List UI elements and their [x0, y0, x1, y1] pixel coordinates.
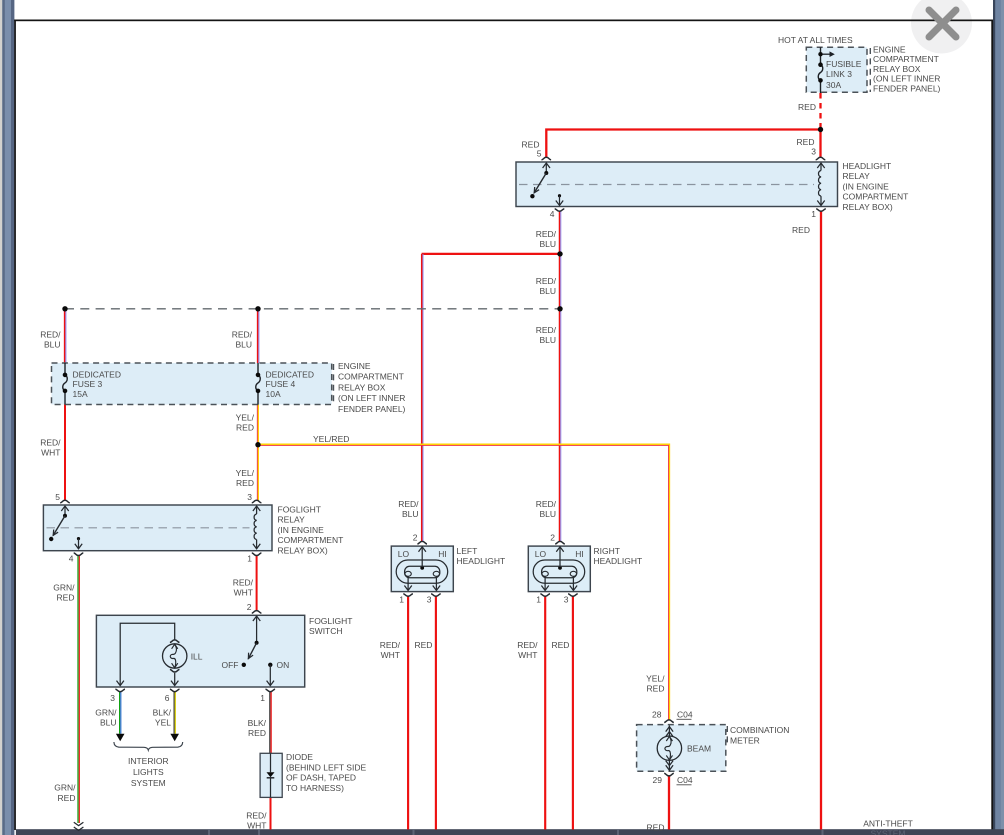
svg-text:HI: HI — [575, 549, 584, 559]
svg-text:RED: RED — [58, 793, 76, 803]
svg-text:RED/: RED/ — [233, 578, 254, 588]
svg-text:1: 1 — [399, 595, 404, 605]
svg-text:RED: RED — [248, 728, 266, 738]
svg-text:RED/: RED/ — [40, 330, 61, 340]
svg-text:3: 3 — [247, 492, 252, 502]
svg-text:GRN/: GRN/ — [53, 583, 75, 593]
svg-text:ILL: ILL — [191, 652, 203, 662]
svg-text:HEADLIGHT: HEADLIGHT — [594, 556, 643, 566]
svg-text:BEAM: BEAM — [687, 744, 711, 754]
svg-text:28: 28 — [652, 710, 662, 720]
svg-text:BLK/: BLK/ — [153, 708, 172, 718]
svg-text:RED/: RED/ — [536, 499, 557, 509]
svg-text:(IN ENGINE: (IN ENGINE — [843, 181, 890, 191]
svg-text:COMPARTMENT: COMPARTMENT — [873, 54, 939, 64]
svg-text:3: 3 — [110, 693, 115, 703]
svg-text:BLU: BLU — [539, 509, 556, 519]
svg-text:YEL/: YEL/ — [236, 468, 255, 478]
svg-text:DIODE: DIODE — [286, 752, 313, 762]
svg-text:30A: 30A — [826, 80, 841, 90]
svg-text:RED: RED — [415, 640, 433, 650]
svg-text:DEDICATED: DEDICATED — [73, 369, 122, 379]
svg-text:ANTI-THEFT: ANTI-THEFT — [863, 819, 913, 829]
svg-text:BLU: BLU — [100, 718, 117, 728]
svg-text:SYSTEM: SYSTEM — [871, 829, 906, 835]
svg-text:RED/: RED/ — [398, 499, 419, 509]
svg-text:RED: RED — [647, 823, 665, 833]
svg-text:LIGHTS: LIGHTS — [133, 767, 164, 777]
svg-text:LO: LO — [535, 549, 547, 559]
svg-text:COMPARTMENT: COMPARTMENT — [338, 372, 404, 382]
svg-text:YEL/RED: YEL/RED — [313, 434, 349, 444]
svg-text:ON: ON — [277, 660, 290, 670]
svg-text:WHT: WHT — [247, 820, 266, 830]
svg-text:BLU: BLU — [402, 509, 419, 519]
svg-text:(BEHIND LEFT SIDE: (BEHIND LEFT SIDE — [286, 762, 366, 772]
svg-text:RELAY BOX): RELAY BOX) — [843, 202, 893, 212]
svg-text:LEFT: LEFT — [457, 546, 478, 556]
svg-text:HEADLIGHT: HEADLIGHT — [457, 556, 506, 566]
svg-text:RED: RED — [797, 137, 815, 147]
svg-text:4: 4 — [69, 554, 74, 564]
svg-text:RIGHT: RIGHT — [594, 546, 620, 556]
svg-text:FUSE 3: FUSE 3 — [73, 379, 103, 389]
svg-text:RELAY BOX): RELAY BOX) — [278, 545, 328, 555]
svg-text:COMPARTMENT: COMPARTMENT — [843, 192, 909, 202]
svg-text:RED: RED — [236, 478, 254, 488]
svg-text:RED: RED — [798, 102, 816, 112]
svg-text:15A: 15A — [73, 389, 88, 399]
svg-text:10A: 10A — [266, 389, 281, 399]
svg-text:SYSTEM: SYSTEM — [131, 778, 166, 788]
svg-text:METER: METER — [730, 735, 760, 745]
svg-text:RELAY BOX: RELAY BOX — [873, 64, 921, 74]
svg-text:1: 1 — [536, 595, 541, 605]
svg-text:RED/: RED/ — [536, 276, 557, 286]
svg-text:RED: RED — [552, 640, 570, 650]
svg-text:LO: LO — [398, 549, 410, 559]
svg-text:COMPARTMENT: COMPARTMENT — [278, 535, 344, 545]
svg-text:RED/: RED/ — [536, 325, 557, 335]
svg-text:RED/: RED/ — [517, 640, 538, 650]
svg-text:(ON LEFT INNER: (ON LEFT INNER — [338, 393, 405, 403]
svg-text:(IN ENGINE: (IN ENGINE — [278, 525, 325, 535]
svg-text:OFF: OFF — [222, 660, 239, 670]
svg-text:BLU: BLU — [539, 335, 556, 345]
svg-text:C04: C04 — [677, 775, 693, 785]
svg-text:RED: RED — [57, 593, 75, 603]
svg-text:RED/: RED/ — [536, 229, 557, 239]
svg-text:3: 3 — [564, 595, 569, 605]
svg-text:YEL/: YEL/ — [236, 413, 255, 423]
svg-text:RED/: RED/ — [246, 810, 267, 820]
svg-text:RELAY: RELAY — [278, 515, 306, 525]
svg-text:C04: C04 — [677, 710, 693, 720]
svg-text:ENGINE: ENGINE — [873, 45, 906, 55]
svg-text:FENDER PANEL): FENDER PANEL) — [873, 83, 941, 93]
svg-text:2: 2 — [550, 533, 555, 543]
svg-text:INTERIOR: INTERIOR — [128, 756, 169, 766]
svg-text:2: 2 — [413, 533, 418, 543]
svg-text:BLU: BLU — [539, 286, 556, 296]
svg-text:SWITCH: SWITCH — [309, 626, 343, 636]
svg-text:2: 2 — [247, 602, 252, 612]
svg-text:WHT: WHT — [518, 650, 537, 660]
svg-text:5: 5 — [55, 492, 60, 502]
svg-text:RED/: RED/ — [380, 640, 401, 650]
svg-text:HOT AT ALL TIMES: HOT AT ALL TIMES — [778, 35, 853, 45]
svg-text:WHT: WHT — [234, 588, 253, 598]
svg-text:GRN/: GRN/ — [95, 708, 117, 718]
svg-text:OF DASH, TAPED: OF DASH, TAPED — [286, 773, 356, 783]
svg-text:RED/: RED/ — [40, 438, 61, 448]
svg-text:RED: RED — [647, 684, 665, 694]
svg-text:RELAY BOX: RELAY BOX — [338, 382, 386, 392]
svg-text:HEADLIGHT: HEADLIGHT — [843, 161, 892, 171]
svg-text:FOGLIGHT: FOGLIGHT — [278, 505, 321, 515]
svg-text:ENGINE: ENGINE — [338, 361, 371, 371]
svg-text:FUSE 4: FUSE 4 — [266, 379, 296, 389]
svg-text:RELAY: RELAY — [843, 171, 871, 181]
svg-text:3: 3 — [811, 147, 816, 157]
svg-text:WHT: WHT — [41, 448, 60, 458]
svg-text:3: 3 — [427, 595, 432, 605]
svg-text:(ON LEFT INNER: (ON LEFT INNER — [873, 74, 940, 84]
svg-text:YEL/: YEL/ — [646, 674, 665, 684]
svg-text:TO HARNESS): TO HARNESS) — [286, 783, 344, 793]
svg-text:DEDICATED: DEDICATED — [266, 369, 315, 379]
svg-text:1: 1 — [247, 554, 252, 564]
svg-text:5: 5 — [537, 149, 542, 159]
svg-text:6: 6 — [165, 693, 170, 703]
svg-text:4: 4 — [550, 209, 555, 219]
svg-text:WHT: WHT — [381, 650, 400, 660]
svg-text:HI: HI — [438, 549, 447, 559]
svg-text:RED: RED — [236, 423, 254, 433]
svg-text:BLK/: BLK/ — [248, 718, 267, 728]
svg-text:BLU: BLU — [539, 239, 556, 249]
svg-text:LINK 3: LINK 3 — [826, 69, 852, 79]
svg-text:1: 1 — [811, 209, 816, 219]
svg-text:FENDER PANEL): FENDER PANEL) — [338, 404, 406, 414]
svg-text:FUSIBLE: FUSIBLE — [826, 59, 862, 69]
svg-text:1: 1 — [260, 693, 265, 703]
svg-text:YEL: YEL — [155, 718, 171, 728]
svg-text:RED/: RED/ — [232, 330, 253, 340]
svg-text:COMBINATION: COMBINATION — [730, 725, 789, 735]
svg-text:FOGLIGHT: FOGLIGHT — [309, 616, 352, 626]
svg-text:BLU: BLU — [44, 340, 61, 350]
svg-text:GRN/: GRN/ — [54, 783, 76, 793]
svg-text:RED: RED — [792, 225, 810, 235]
svg-text:BLU: BLU — [235, 340, 252, 350]
svg-text:29: 29 — [653, 775, 663, 785]
